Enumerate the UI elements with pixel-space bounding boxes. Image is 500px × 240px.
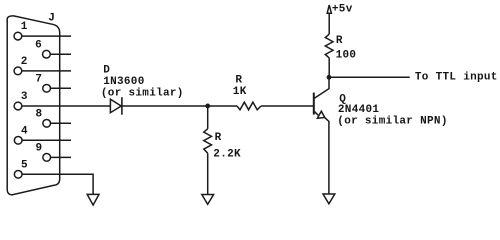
pin 6 xyxy=(35,39,50,58)
svg-text:1: 1 xyxy=(21,21,28,33)
wire R2 to ground xyxy=(207,153,209,194)
svg-text:R: R xyxy=(336,35,343,47)
wire R1 to transistor base xyxy=(261,105,314,107)
svg-text:8: 8 xyxy=(35,108,42,120)
node A junction dot xyxy=(205,104,210,109)
+5v supply arrow xyxy=(327,5,331,13)
svg-text:J: J xyxy=(48,12,55,24)
ground for pin 5 xyxy=(87,194,99,205)
wire pin 6 stub xyxy=(50,53,71,55)
resistor R3 100 zigzag xyxy=(325,34,333,58)
wire R3 to collector node xyxy=(328,58,330,77)
resistor R3 labels xyxy=(336,35,357,62)
svg-text:5: 5 xyxy=(21,159,28,171)
svg-text:+5v: +5v xyxy=(332,4,353,16)
svg-text:7: 7 xyxy=(35,73,42,85)
wire pin 2 stub xyxy=(22,70,71,72)
pin 2 xyxy=(14,56,28,75)
wire collector node to TTL output xyxy=(329,76,410,78)
wire pin 9 stub xyxy=(51,156,71,158)
wire +5v to R3 xyxy=(328,13,330,34)
svg-text:2: 2 xyxy=(21,56,28,68)
resistor R1 labels xyxy=(233,75,247,99)
wire diode cathode to node A xyxy=(122,105,208,107)
wire node A to R1 xyxy=(208,105,237,107)
pin 1 xyxy=(14,21,28,40)
wire pin 4 stub xyxy=(22,139,71,141)
resistor R1 1K zigzag xyxy=(237,102,261,110)
svg-text:R: R xyxy=(215,132,222,144)
svg-text:R: R xyxy=(235,75,242,87)
wire pin 3 to diode anode xyxy=(22,105,111,107)
svg-text:6: 6 xyxy=(35,39,42,51)
connector J outline xyxy=(7,16,60,195)
diode labels xyxy=(101,64,184,99)
transistor Q 2N4401 xyxy=(314,77,329,194)
svg-text:3: 3 xyxy=(21,91,28,103)
resistor R2 labels xyxy=(213,132,241,161)
svg-text:(or similar): (or similar) xyxy=(101,88,184,100)
ground for emitter xyxy=(323,194,335,204)
pin 9 xyxy=(35,143,50,162)
pin 4 xyxy=(14,125,28,144)
resistor R2 2.2K zigzag xyxy=(204,129,212,153)
svg-text:9: 9 xyxy=(35,143,42,155)
svg-text:4: 4 xyxy=(21,125,28,137)
diode D 1N3600 xyxy=(110,97,122,115)
wire node A down to R2 xyxy=(207,106,209,129)
svg-text:1N3600: 1N3600 xyxy=(103,76,144,88)
svg-text:2.2K: 2.2K xyxy=(213,149,241,161)
svg-text:D: D xyxy=(103,64,110,76)
ground for R2 xyxy=(202,195,214,205)
transistor labels xyxy=(337,94,447,128)
wire pin 5 to ground xyxy=(22,174,93,194)
pin 8 xyxy=(35,108,50,127)
svg-text:To TTL input: To TTL input xyxy=(415,72,498,84)
wire pin 7 stub xyxy=(51,87,71,89)
wire pin 8 stub xyxy=(51,122,71,124)
svg-text:1K: 1K xyxy=(233,86,247,98)
wire pin 1 stub xyxy=(22,35,71,37)
svg-text:2N4401: 2N4401 xyxy=(338,104,380,116)
svg-text:(or similar NPN): (or similar NPN) xyxy=(337,116,447,128)
pin 7 xyxy=(35,73,50,92)
svg-text:100: 100 xyxy=(336,49,357,61)
pin 3 xyxy=(14,91,28,110)
pin 5 xyxy=(14,159,28,178)
collector node junction dot xyxy=(327,75,332,80)
